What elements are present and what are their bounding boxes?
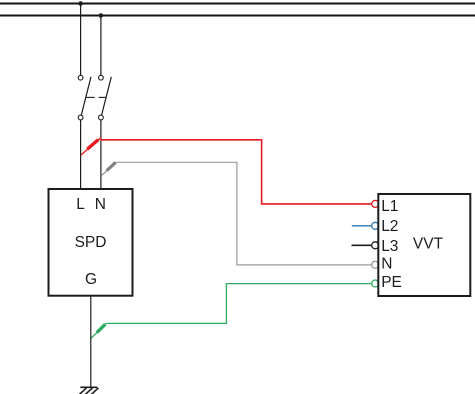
svg-text:L3: L3 — [381, 238, 398, 255]
svg-text:G: G — [85, 271, 97, 288]
svg-text:L1: L1 — [381, 198, 398, 215]
svg-text:VVT: VVT — [413, 236, 444, 253]
svg-text:PE: PE — [381, 274, 402, 291]
svg-text:N: N — [95, 196, 106, 213]
svg-text:SPD: SPD — [75, 234, 107, 251]
svg-text:L: L — [76, 196, 85, 213]
svg-text:N: N — [381, 256, 392, 273]
svg-text:L2: L2 — [381, 218, 398, 235]
